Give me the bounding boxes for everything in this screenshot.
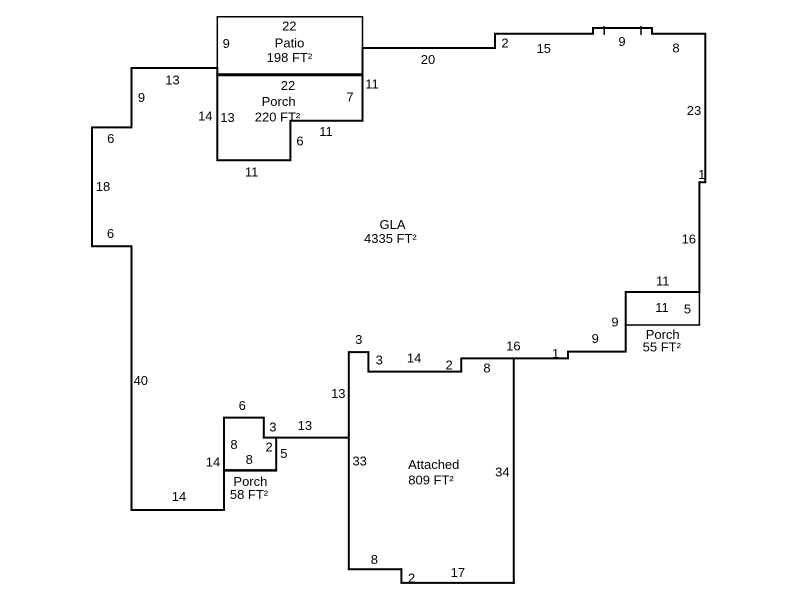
svg-text:6: 6: [107, 131, 114, 146]
svg-text:3: 3: [269, 419, 276, 434]
svg-text:40: 40: [134, 373, 148, 388]
svg-text:22: 22: [281, 78, 295, 93]
svg-text:58 FT²: 58 FT²: [230, 487, 269, 502]
svg-text:11: 11: [656, 273, 670, 288]
svg-text:6: 6: [107, 226, 114, 241]
svg-text:14: 14: [198, 109, 212, 124]
svg-text:15: 15: [537, 41, 551, 56]
svg-text:1: 1: [552, 346, 559, 361]
wire garage bottom step: [400, 568, 402, 583]
wire porch58 bottom edge: [223, 469, 277, 472]
svg-text:Porch: Porch: [262, 94, 296, 109]
svg-text:4335 FT²: 4335 FT²: [364, 231, 417, 246]
svg-text:11: 11: [319, 124, 333, 139]
svg-text:9: 9: [138, 90, 145, 105]
svg-text:13: 13: [298, 418, 312, 433]
wire porch55 right edge: [698, 292, 700, 325]
svg-text:5: 5: [684, 302, 691, 317]
wire main GLA outline: [92, 28, 705, 510]
svg-text:5: 5: [280, 446, 287, 461]
wire garage right edge: [513, 357, 515, 584]
svg-text:23: 23: [687, 103, 701, 118]
svg-text:14: 14: [172, 489, 186, 504]
svg-text:8: 8: [230, 437, 237, 452]
svg-text:14: 14: [407, 350, 421, 365]
svg-text:3: 3: [376, 353, 383, 368]
wire garage bottom-left edge: [348, 568, 402, 570]
wire garage bottom edge: [400, 582, 514, 584]
svg-text:9: 9: [611, 315, 618, 330]
svg-text:2: 2: [501, 36, 508, 51]
svg-text:8: 8: [371, 552, 378, 567]
svg-text:2: 2: [445, 358, 452, 373]
svg-text:13: 13: [331, 386, 345, 401]
svg-text:55 FT²: 55 FT²: [643, 339, 682, 354]
svg-text:6: 6: [239, 398, 246, 413]
svg-text:18: 18: [96, 179, 110, 194]
svg-text:33: 33: [352, 454, 366, 469]
svg-text:13: 13: [220, 110, 234, 125]
node tick left on bump: [603, 26, 605, 35]
svg-text:6: 6: [296, 134, 303, 149]
svg-text:14: 14: [206, 454, 220, 469]
svg-text:2: 2: [408, 570, 415, 585]
node tick right on bump: [640, 26, 642, 35]
wire porch58 right edge: [275, 437, 277, 471]
svg-text:198 FT²: 198 FT²: [267, 50, 313, 65]
svg-text:GLA: GLA: [379, 217, 405, 232]
svg-text:Patio: Patio: [275, 36, 305, 51]
svg-text:9: 9: [618, 34, 625, 49]
svg-text:2: 2: [265, 440, 272, 455]
svg-text:11: 11: [245, 165, 259, 180]
svg-text:Attached: Attached: [408, 457, 459, 472]
svg-text:8: 8: [246, 452, 253, 467]
svg-text:8: 8: [483, 360, 490, 375]
svg-text:9: 9: [223, 36, 230, 51]
svg-text:7: 7: [346, 90, 353, 105]
svg-text:220 FT²: 220 FT²: [255, 110, 301, 125]
svg-text:16: 16: [682, 232, 696, 247]
svg-text:3: 3: [355, 332, 362, 347]
svg-text:22: 22: [282, 19, 296, 34]
svg-text:34: 34: [495, 464, 509, 479]
svg-text:1: 1: [698, 167, 705, 182]
svg-text:8: 8: [672, 41, 679, 56]
svg-text:11: 11: [655, 300, 669, 315]
svg-text:11: 11: [365, 76, 379, 91]
wire patio rectangle: [217, 17, 362, 75]
svg-text:20: 20: [421, 52, 435, 67]
svg-text:9: 9: [592, 331, 599, 346]
svg-text:809 FT²: 809 FT²: [408, 472, 454, 487]
svg-text:13: 13: [165, 73, 179, 88]
wire garage left edge extension: [348, 438, 350, 570]
svg-text:16: 16: [506, 339, 520, 354]
wire porch55 bottom edge: [625, 324, 700, 326]
svg-text:17: 17: [451, 565, 465, 580]
wire patio/porch divider: [216, 73, 363, 76]
